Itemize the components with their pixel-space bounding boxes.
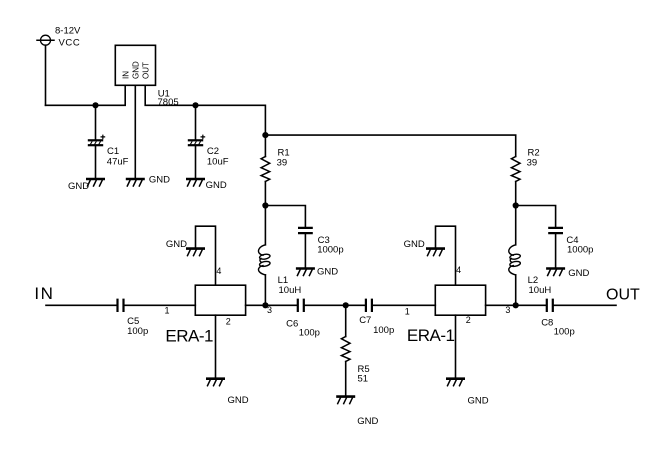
svg-text:39: 39 [277, 158, 288, 169]
wire C5 to amp1 pin1 [125, 304, 196, 306]
svg-text:10uH: 10uH [529, 285, 552, 296]
node R2 bottom [513, 202, 519, 208]
svg-text:1000p: 1000p [567, 245, 593, 256]
wire R5 upper lead [345, 305, 347, 336]
svg-text:47uF: 47uF [107, 156, 129, 167]
svg-text:2: 2 [466, 315, 471, 325]
svg-text:51: 51 [358, 374, 369, 385]
svg-text:C6: C6 [286, 319, 298, 330]
wire amp1 pin2 to ground [215, 315, 217, 379]
svg-text:GND: GND [149, 175, 170, 186]
svg-text:1000p: 1000p [317, 245, 343, 256]
op-amp U2 ERA-1 body [195, 285, 245, 315]
wire L1 lower lead [264, 275, 266, 305]
ground C1 [87, 179, 103, 186]
svg-text:IN: IN [34, 284, 54, 303]
svg-text:C8: C8 [541, 318, 553, 329]
ground C2 [187, 179, 203, 186]
wire R1 lower lead [264, 182, 266, 206]
op-amp U3 ERA-1 body [435, 285, 485, 315]
capacitor C2 [189, 135, 205, 145]
wire R2 to C4 [516, 206, 556, 227]
ground U1 [127, 179, 143, 186]
wire amp2 pin2 to ground [455, 315, 457, 379]
wire C2 lower lead [195, 146, 197, 179]
svg-text:4: 4 [216, 266, 221, 276]
wire R1 to C3 [265, 206, 305, 227]
power flag VCC [37, 35, 54, 45]
ground amp2 bottom [447, 379, 463, 386]
node C2 tap [192, 102, 198, 108]
ground amp1 top [187, 249, 203, 256]
svg-text:7805: 7805 [158, 97, 179, 108]
regulator U1 body [115, 45, 155, 85]
capacitor C1 [89, 135, 105, 145]
wire amp1 pin4 to ground [196, 226, 216, 285]
svg-text:10uF: 10uF [207, 156, 229, 167]
wire VCC stem to rail [45, 45, 47, 105]
ground C4 [547, 269, 563, 276]
ground amp1 bottom [207, 379, 223, 386]
wire L2 lower lead [515, 275, 517, 305]
svg-text:GND: GND [131, 61, 140, 79]
svg-text:ERA-1: ERA-1 [407, 326, 455, 345]
capacitor C5 [118, 300, 124, 311]
wire amp2 pin3 [486, 304, 516, 306]
wire node to C7 [346, 304, 365, 306]
svg-text:GND: GND [228, 395, 249, 406]
svg-text:IN: IN [121, 71, 130, 79]
ground R5 [338, 397, 354, 404]
svg-text:3: 3 [505, 305, 510, 315]
svg-text:OUT: OUT [606, 287, 640, 304]
wire C4 lower lead [555, 234, 557, 268]
node amp1 pin3 [262, 302, 268, 308]
svg-text:GND: GND [317, 267, 338, 278]
svg-text:GND: GND [68, 181, 89, 192]
wire R2 lower lead [515, 182, 517, 206]
svg-text:C7: C7 [359, 315, 371, 326]
svg-text:VCC: VCC [59, 38, 81, 49]
wire VCC rail to U1 IN pin [46, 85, 126, 105]
wire L2 upper lead [515, 206, 517, 245]
wire C3 lower lead [304, 234, 306, 268]
svg-text:100p: 100p [127, 326, 148, 337]
ground amp2 top [427, 249, 443, 256]
wire IN lead [46, 304, 117, 306]
svg-text:1: 1 [405, 307, 410, 317]
capacitor C4 [549, 228, 562, 233]
svg-text:2: 2 [226, 317, 231, 327]
capacitor C8 [547, 300, 553, 311]
resistor R5 [341, 337, 350, 362]
svg-text:4: 4 [456, 265, 461, 275]
wire C6 to R5 node [305, 304, 346, 306]
wire L1 upper lead [264, 206, 266, 245]
svg-text:GND: GND [468, 395, 489, 406]
wire C2 upper lead [195, 105, 197, 139]
svg-text:8-12V: 8-12V [55, 25, 81, 36]
svg-text:1: 1 [165, 305, 170, 315]
wire C7 to amp2 pin1 [373, 304, 435, 306]
node R1 bottom [262, 202, 268, 208]
wire pin3 to C6 [265, 304, 296, 306]
wire U1 OUT rail to R2 top [145, 85, 516, 156]
capacitor C6 [298, 300, 304, 311]
inductor L2 [509, 245, 521, 275]
svg-text:10uH: 10uH [279, 285, 302, 296]
svg-text:ERA-1: ERA-1 [165, 326, 213, 345]
svg-text:3: 3 [267, 305, 272, 315]
node amp2 pin3 [513, 302, 519, 308]
node C1 tap [92, 102, 98, 108]
inductor L1 [258, 245, 270, 275]
svg-text:OUT: OUT [141, 62, 150, 79]
ground C3 [297, 269, 313, 276]
wire C1 upper lead [95, 105, 97, 139]
node R1 top [262, 132, 268, 138]
wire C1 lower lead [95, 146, 97, 179]
svg-text:100p: 100p [299, 327, 320, 338]
svg-text:GND: GND [568, 268, 589, 279]
wire pin3 to C8 [516, 304, 546, 306]
node R5 tap [343, 302, 349, 308]
capacitor C3 [299, 228, 312, 233]
svg-text:GND: GND [357, 416, 378, 427]
wire R1 upper lead [264, 135, 266, 156]
svg-text:39: 39 [527, 158, 538, 169]
wire R5 lower lead [345, 362, 347, 397]
svg-text:GND: GND [206, 180, 227, 191]
svg-text:100p: 100p [373, 325, 394, 336]
wire C8 to OUT [554, 304, 616, 306]
wire amp1 pin3 [246, 304, 266, 306]
svg-text:GND: GND [404, 239, 425, 250]
wire amp2 pin4 to ground [436, 226, 456, 285]
svg-text:100p: 100p [554, 327, 575, 338]
wire U1 GND pin [134, 85, 136, 179]
resistor R2 [511, 157, 520, 182]
svg-text:GND: GND [166, 239, 187, 250]
resistor R1 [261, 157, 270, 182]
capacitor C7 [366, 300, 372, 311]
